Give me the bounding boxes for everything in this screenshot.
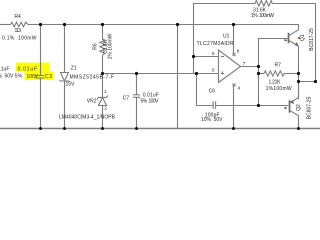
wire R6 branch upper	[102, 24, 104, 40]
svg-text:10% 50V: 10% 50V	[201, 117, 223, 123]
junction vref at VR2 branch	[101, 72, 104, 75]
svg-text:100V: 100V	[27, 74, 39, 80]
op-amp plus symbol	[221, 73, 224, 75]
wire C3 branch upper	[40, 24, 42, 76]
svg-text:8: 8	[237, 49, 240, 54]
junction node A left	[297, 80, 300, 83]
wire op-amp output pin 7	[240, 66, 258, 68]
junction Z1 top rail	[63, 23, 66, 26]
svg-text:Z1: Z1	[71, 65, 77, 71]
svg-text:6: 6	[212, 51, 215, 56]
wire feedback top horizontal left	[194, 3, 256, 5]
wire C7 branch lower	[136, 97, 138, 128]
op-amp minus symbol	[221, 56, 224, 58]
svg-text:4: 4	[238, 85, 241, 90]
svg-text:BC817-25: BC817-25	[309, 28, 315, 51]
wire right edge vertical to node A	[315, 3, 317, 82]
bottom rail	[0, 128, 320, 130]
capacitor C6	[212, 101, 214, 109]
svg-text:1.21K: 1.21K	[269, 79, 282, 85]
junction C7 bottom rail	[135, 127, 138, 130]
wire R6 to VR2	[102, 55, 104, 97]
wire Q1 emitter vertical	[298, 46, 300, 99]
resistor R7	[258, 73, 264, 75]
junction R7 right emitter vertical	[297, 72, 300, 75]
op-amp U1	[219, 50, 241, 83]
wire Z1 branch lower	[64, 81, 66, 129]
svg-text:113: 113	[15, 28, 22, 34]
junction vref at C7 branch	[135, 72, 138, 75]
svg-text:1: 1	[104, 89, 107, 94]
capacitor C3	[36, 75, 45, 77]
op-amp pin 8 power stub	[233, 24, 235, 53]
Q1 pin 2 number mark	[298, 37, 300, 39]
transistor Q1	[288, 33, 290, 43]
capacitor C7	[133, 94, 140, 96]
junction Q2 collector bottom rail	[297, 127, 300, 130]
svg-text:R4: R4	[14, 14, 21, 20]
highlight marker over C3 values	[16, 63, 54, 81]
wire vref node horizontal to op-amp pin 5	[103, 73, 219, 75]
junction VR2 bottom rail	[101, 127, 104, 130]
svg-text:R7: R7	[275, 62, 282, 68]
svg-text:U1: U1	[223, 34, 230, 40]
wire top rail left segment	[0, 24, 11, 26]
wire feedback top horizontal right	[272, 3, 315, 5]
junction R6 top rail	[101, 23, 104, 26]
svg-text:0.1% 100mW: 0.1% 100mW	[2, 36, 37, 42]
wire op-amp minus input pin 6	[194, 56, 219, 58]
svg-text:C3: C3	[45, 74, 52, 80]
junction mid vertical top rail	[176, 23, 179, 26]
op-amp pin 4 power stub	[233, 84, 236, 87]
wire vertical mid rail-to-rail	[177, 24, 179, 129]
junction vref at C6 riser	[195, 72, 198, 75]
wire VR2 to bottom rail	[102, 106, 104, 129]
junction pin4 stub bottom rail	[232, 127, 235, 130]
svg-text:MMSZ5245B-7-F: MMSZ5245B-7-F	[70, 75, 115, 81]
svg-text:0.1uF: 0.1uF	[0, 67, 9, 73]
svg-text:Q2: Q2	[296, 104, 302, 111]
svg-text:BC807-25: BC807-25	[307, 97, 313, 120]
svg-text:LM4040CIM3-4_1/NOPB: LM4040CIM3-4_1/NOPB	[59, 115, 116, 121]
wire Q1 base horizontal	[258, 38, 288, 40]
svg-text:Q1: Q1	[300, 34, 306, 41]
junction Z1 bottom rail	[63, 127, 66, 130]
junction C3 bottom rail	[39, 127, 42, 130]
wire Q2 collector to bottom rail	[298, 116, 300, 129]
wire top rail from R4 to Q1 collector corner	[28, 24, 299, 26]
resistor R6	[100, 39, 105, 55]
svg-text:C7: C7	[123, 96, 130, 102]
transistor Q2	[289, 100, 291, 112]
svg-text:1%100mW: 1%100mW	[266, 86, 292, 92]
resistor 31.6K top	[255, 1, 272, 7]
Q1 pin 1 base mark	[285, 39, 288, 41]
wire C3 branch lower	[40, 78, 42, 129]
svg-text:%: %	[0, 73, 2, 79]
svg-text:7: 7	[243, 61, 246, 66]
svg-text:0.01uF: 0.01uF	[18, 66, 38, 72]
wire C6 left riser from vref node	[197, 74, 214, 106]
svg-text:15V: 15V	[66, 81, 76, 87]
svg-text:1% 100mW: 1% 100mW	[251, 13, 274, 19]
svg-text:2: 2	[104, 106, 107, 111]
Q2 pin 1 base mark	[285, 107, 288, 109]
wire C6 to Q2 base	[216, 105, 289, 107]
svg-text:1% 100mW: 1% 100mW	[108, 33, 114, 59]
wire node A horizontal	[299, 81, 316, 83]
junction R7 left	[257, 72, 260, 75]
svg-text:VR2: VR2	[87, 98, 97, 104]
junction C6 wire output vertical	[257, 104, 260, 107]
junction feedback riser pin 6	[192, 55, 195, 58]
wire output node vertical	[258, 38, 260, 106]
junction node A right	[314, 80, 317, 83]
zener diode Z1	[61, 73, 69, 82]
resistor R4	[11, 22, 29, 27]
svg-text:C6: C6	[209, 88, 216, 94]
wire Z1 branch upper	[64, 24, 66, 73]
svg-text:5% 100V: 5% 100V	[141, 99, 160, 105]
svg-text:50V 5%: 50V 5%	[5, 73, 23, 79]
shunt reference VR2	[97, 95, 108, 99]
wire C7 branch upper	[136, 73, 138, 95]
junction pin8 stub top rail	[232, 23, 235, 26]
wire feedback riser	[193, 3, 195, 73]
svg-text:R6: R6	[93, 43, 99, 50]
svg-text:TLC27M2AIDR: TLC27M2AIDR	[197, 41, 234, 47]
junction output node	[257, 65, 260, 68]
svg-text:5: 5	[212, 67, 215, 72]
junction C3 top rail	[39, 23, 42, 26]
